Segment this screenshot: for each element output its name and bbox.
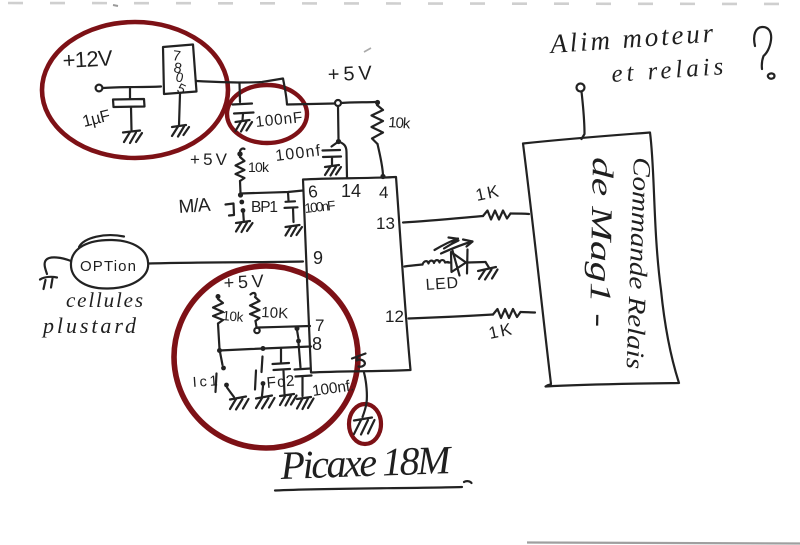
wire terminal to relay box xyxy=(582,92,585,140)
svg-text:LED: LED xyxy=(425,275,460,294)
scan artifact bottom-right grey line xyxy=(527,543,800,544)
label 1K upper xyxy=(474,181,501,205)
LED D1 xyxy=(448,250,490,276)
wire +5V node down to pin14 xyxy=(337,106,340,139)
photocell connector symbol xyxy=(40,277,57,289)
junction dot R6 top xyxy=(216,294,221,299)
pin label 8 xyxy=(312,334,322,354)
title underline xyxy=(275,481,472,490)
label LED xyxy=(425,275,460,294)
svg-text:cellules: cellules xyxy=(66,288,143,312)
label M/A xyxy=(178,195,212,218)
pin label 9 xyxy=(313,248,323,268)
label 1K lower xyxy=(487,319,514,343)
pin label 7 xyxy=(315,316,324,335)
connector K2 contacts xyxy=(255,357,265,397)
label 100nF xyxy=(255,109,304,131)
label +12V xyxy=(62,45,114,73)
junction dot on row7 xyxy=(295,326,300,331)
wire LED drive xyxy=(405,265,423,267)
label 1uF xyxy=(81,107,113,131)
label plustard xyxy=(41,313,137,338)
label BP1 xyxy=(251,199,278,216)
scan artifact top dashed line xyxy=(8,3,795,52)
wire R6 to row8 xyxy=(218,324,220,350)
label et relais xyxy=(611,53,725,88)
label cellules xyxy=(66,288,143,312)
ground below C6 xyxy=(297,397,314,409)
label +5V top xyxy=(327,62,372,86)
hook R7 top xyxy=(251,293,256,296)
ground below regulator xyxy=(172,125,189,137)
junction dot right xyxy=(375,100,380,105)
resistor R5 1K horizontal xyxy=(493,309,521,318)
svg-text:10K: 10K xyxy=(261,304,289,322)
wire R7 to row7 xyxy=(254,321,259,333)
input terminal xyxy=(96,85,103,92)
pin label 12 xyxy=(385,307,404,326)
wire pin5 to ground xyxy=(363,373,367,418)
wire pin13 to R3 xyxy=(403,216,483,223)
ground below C4 xyxy=(286,225,303,236)
ground below C2 xyxy=(236,120,253,132)
svg-text:12: 12 xyxy=(385,307,404,326)
resistor R3 1K horizontal xyxy=(483,211,511,220)
junction dot BP1 top xyxy=(238,192,243,197)
label 10k for R6 xyxy=(222,308,244,325)
svg-text:Fc2: Fc2 xyxy=(266,373,295,392)
capacitor C2 100nF xyxy=(233,83,254,120)
ground below C1 xyxy=(123,131,142,144)
svg-text:de Mag1 -: de Mag1 - xyxy=(583,157,619,328)
label 10k for R1 xyxy=(388,114,412,133)
ground below C5 xyxy=(280,394,297,406)
svg-text:+5V: +5V xyxy=(327,62,372,86)
rotated label Commande Relais xyxy=(621,157,655,370)
regulator U1 7805 xyxy=(163,45,197,98)
wire R1 to pin4 xyxy=(378,144,384,175)
wire input to regulator xyxy=(103,87,161,89)
junction dot +5V M/A row xyxy=(237,149,244,157)
junction dot at cap tap xyxy=(336,139,341,144)
svg-text:BP1: BP1 xyxy=(251,199,278,216)
label Fc2 xyxy=(266,373,295,392)
resistor R2 10k vertical xyxy=(236,157,245,181)
LED light arrows xyxy=(435,238,473,254)
svg-text:4: 4 xyxy=(379,183,388,202)
label Alim moteur xyxy=(547,18,714,59)
pin label 14 xyxy=(341,181,361,201)
ground pin5 xyxy=(354,418,375,435)
resistor R1 10k vertical right xyxy=(372,105,384,144)
capacitor C5 Fc2 xyxy=(273,348,291,394)
rotated label de Mag1 xyxy=(583,157,619,328)
svg-text:+5V: +5V xyxy=(223,271,264,293)
svg-text:M/A: M/A xyxy=(178,195,212,218)
connector Ic1 contacts xyxy=(216,352,235,397)
terminal to relay supply xyxy=(577,84,585,92)
capacitor C1 1uF xyxy=(113,88,145,131)
junction dot above pin4 xyxy=(380,174,385,179)
highlight circle around lower RC network xyxy=(174,266,358,448)
label 100nf middle xyxy=(274,143,321,165)
svg-text:13: 13 xyxy=(376,214,395,233)
node +5V open circle xyxy=(335,100,341,106)
wire R3 to relay box xyxy=(511,212,530,215)
label OPTION xyxy=(80,258,136,275)
IC U2 Picaxe 18M body xyxy=(303,177,411,373)
svg-text:14: 14 xyxy=(341,181,361,201)
wire regulator output to +5V rail xyxy=(197,79,335,105)
pin label 13 xyxy=(376,214,395,233)
capacitor C4 at BP1 xyxy=(285,192,298,222)
title Picaxe 18M xyxy=(279,437,454,488)
junction dot row8 left xyxy=(217,348,222,353)
svg-text:8: 8 xyxy=(312,334,322,354)
OPTION bubble xyxy=(71,235,148,288)
svg-text:Picaxe 18M: Picaxe 18M xyxy=(279,437,454,488)
label 10k for R2 xyxy=(248,159,270,175)
wire OPTION to photocell stub xyxy=(45,257,71,274)
svg-text:9: 9 xyxy=(313,248,323,268)
resistor R7 10K xyxy=(250,297,260,321)
wire tap to pin14 xyxy=(339,142,348,179)
ground below BP1 xyxy=(236,221,253,232)
label 100nf lower xyxy=(311,377,355,400)
svg-text:7: 7 xyxy=(315,316,324,335)
label Ic1 xyxy=(192,373,218,391)
wire R2 to BP1 node xyxy=(239,181,242,193)
pushbutton BP1 xyxy=(226,200,246,221)
label 100nF inside box edge xyxy=(304,198,336,216)
pin label 5 xyxy=(352,354,366,367)
svg-text:10k: 10k xyxy=(222,308,244,325)
wire R5 to relay box xyxy=(521,311,536,314)
svg-text:10k: 10k xyxy=(388,114,412,133)
ground below K2 xyxy=(256,396,275,409)
wire +5V node to resistor branch xyxy=(341,102,375,103)
capacitor C6 100nf xyxy=(295,330,312,396)
svg-text:+12V: +12V xyxy=(62,45,114,73)
junction dot row8 mid xyxy=(261,346,266,351)
label 10K for R7 xyxy=(261,304,289,322)
highlight ellipse around 100nF decoupling cap xyxy=(227,85,307,143)
svg-text:10k: 10k xyxy=(248,159,270,175)
label +5V at M/A row xyxy=(190,150,228,169)
wire row7 to pin7 xyxy=(258,326,310,328)
pin label 4 xyxy=(379,183,388,202)
wire BP1 row to cap and pin6 side xyxy=(241,191,304,194)
ground below Ic1 xyxy=(230,397,249,410)
ground at LED xyxy=(478,267,498,280)
wire regulator to ground xyxy=(179,94,180,125)
resistor R4 series LED xyxy=(423,260,449,264)
highlight ellipse around power supply xyxy=(42,22,228,158)
label +5V lower xyxy=(223,271,264,293)
wire pin12 to R5 xyxy=(409,315,494,319)
resistor R6 10k xyxy=(213,299,223,324)
capacitor C3 100nf at pin14 xyxy=(323,142,342,166)
relay command box xyxy=(523,133,679,387)
highlight ellipse around pin5 ground xyxy=(349,404,381,444)
pin label 6 xyxy=(307,182,319,202)
ground below C3 xyxy=(325,165,341,176)
svg-text:OPTion: OPTion xyxy=(80,258,136,275)
svg-text:Ic1: Ic1 xyxy=(192,373,218,391)
svg-text:+5V: +5V xyxy=(190,150,228,169)
question mark xyxy=(754,27,774,79)
wire row8 to pin8 xyxy=(220,347,312,351)
wire pin9 to OPTION xyxy=(149,262,303,264)
